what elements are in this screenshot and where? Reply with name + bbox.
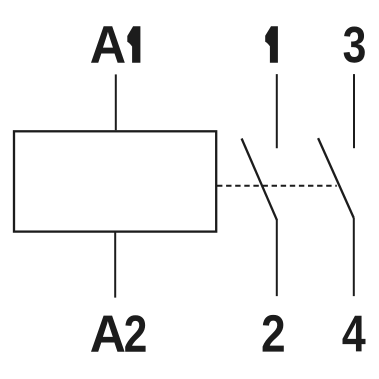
label pin 1 (265, 26, 278, 63)
label A2: letter A (91, 316, 125, 352)
label pin 4 (343, 316, 366, 352)
wire contact pin 1 top terminal (276, 74, 278, 148)
label A1: digit 1 (127, 26, 140, 63)
wire contact pin 3 top terminal (353, 74, 355, 148)
wire A2 terminal (114, 232, 116, 298)
mechanical link (dashed) (217, 185, 337, 187)
label pin 3 (344, 27, 365, 63)
contact 3-4 moving blade (318, 138, 354, 218)
contact 1-2 moving blade (242, 139, 277, 220)
label pin 2 (263, 315, 284, 352)
wire A1 terminal (115, 74, 117, 130)
wire contact pin 2 bottom terminal (276, 219, 278, 296)
label A2: digit 2 (125, 315, 145, 352)
wire contact pin 4 bottom terminal (353, 218, 355, 296)
coil K1 (rectangle) (14, 131, 216, 231)
label A1: letter A (91, 26, 125, 63)
